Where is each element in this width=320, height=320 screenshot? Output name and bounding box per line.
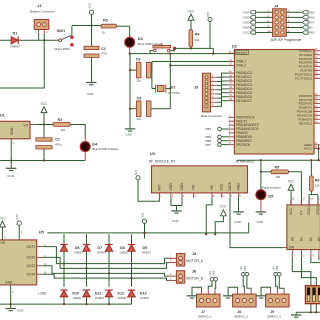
svg-text:SERVO_3: SERVO_3 — [267, 314, 281, 318]
svg-text:R6: R6 — [315, 178, 320, 182]
terminal GND J4 left — [256, 26, 273, 28]
svg-text:+5V: +5V — [210, 184, 214, 191]
terminal GND J4 left — [256, 11, 273, 13]
connector J8 SERVO_2 — [233, 294, 257, 307]
svg-text:AVR ISP Programmer: AVR ISP Programmer — [271, 38, 303, 42]
ground symbol left rail — [6, 167, 16, 169]
terminal PB3 — [218, 127, 222, 131]
decoder U4 — [287, 205, 320, 250]
svg-text:PD7/OC2: PD7/OC2 — [299, 121, 313, 125]
svg-text:51k: 51k — [315, 184, 320, 188]
terminal VCC for U4 — [288, 184, 294, 190]
wire C2 to ground — [91, 57, 93, 82]
DIP switch address — [305, 286, 320, 304]
terminal VCC above R4 — [188, 14, 194, 20]
wire DIP to ground rail — [310, 304, 312, 313]
terminal VCC above C1 — [41, 107, 47, 113]
svg-text:D6: D6 — [75, 246, 80, 250]
svg-text:OUT2: OUT2 — [26, 256, 35, 260]
resistor R5 — [261, 171, 271, 173]
svg-text:ANT: ANT — [157, 184, 161, 191]
svg-text:PB5: PB5 — [309, 10, 315, 14]
terminal PB5 — [218, 139, 222, 143]
wire column D7 — [86, 251, 88, 287]
svg-text:J5: J5 — [192, 251, 197, 256]
diode D6 — [63, 234, 65, 244]
svg-text:1N4007: 1N4007 — [10, 45, 20, 49]
svg-text:D3: D3 — [138, 36, 144, 41]
terminal PB0 J7 — [214, 277, 218, 281]
svg-text:Male Connector: Male Connector — [201, 114, 222, 118]
terminal NC J4 right — [286, 26, 302, 28]
svg-text:C4: C4 — [137, 96, 142, 100]
svg-text:GND: GND — [17, 309, 25, 313]
svg-text:L298: L298 — [38, 292, 46, 296]
svg-text:D8: D8 — [120, 246, 125, 250]
svg-text:OUT3: OUT3 — [26, 264, 35, 268]
wire U4 A1 to DIP — [302, 257, 317, 285]
VCC rail below U2 — [237, 159, 320, 161]
resistor R2 — [101, 24, 117, 28]
terminal RST J4 right — [286, 21, 302, 23]
svg-text:1N4007: 1N4007 — [72, 296, 82, 300]
wire column D8 — [108, 251, 110, 287]
svg-text:C1: C1 — [55, 137, 60, 141]
svg-text:J9: J9 — [270, 310, 274, 314]
svg-text:J4: J4 — [274, 4, 278, 8]
terminal PB3 J9 — [278, 272, 282, 276]
svg-text:GND: GND — [172, 219, 180, 223]
svg-text:CRYSTAL: CRYSTAL — [168, 91, 181, 95]
svg-text:RST: RST — [309, 21, 315, 25]
svg-text:VCC: VCC — [243, 31, 250, 35]
ground below D5 — [256, 211, 266, 213]
svg-text:OSC1: OSC1 — [307, 206, 311, 215]
svg-text:Signal indicator: Signal indicator — [262, 185, 281, 189]
svg-text:PC7/TOSC2: PC7/TOSC2 — [295, 76, 312, 80]
svg-text:+12V: +12V — [140, 212, 144, 219]
svg-text:MOTOR_A: MOTOR_A — [186, 259, 203, 263]
svg-text:PB0: PB0 — [212, 270, 216, 276]
diode D8 — [108, 234, 110, 244]
wire U1 ground pin — [10, 139, 12, 161]
wire crystal ground column — [129, 54, 131, 129]
svg-text:D9: D9 — [143, 246, 148, 250]
svg-text:D12: D12 — [117, 292, 124, 296]
ground U3 pin8 — [238, 197, 240, 212]
svg-text:D4: D4 — [92, 141, 98, 146]
svg-text:VCC: VCC — [288, 180, 295, 184]
wire OUT1 to MOTOR_A — [42, 247, 168, 264]
connector J7 SERVO_1 — [197, 294, 221, 307]
svg-text:VCC: VCC — [220, 205, 227, 209]
svg-text:PB2: PB2 — [309, 31, 315, 35]
ground below C2 — [86, 82, 96, 84]
svg-text:MOTOR_B: MOTOR_B — [186, 277, 203, 281]
terminal +12V top — [89, 10, 93, 14]
svg-text:PA7/ADC7: PA7/ADC7 — [236, 99, 252, 103]
capacitor C3 — [136, 62, 141, 78]
svg-text:D7: D7 — [98, 246, 103, 250]
svg-text:+12V: +12V — [15, 214, 19, 221]
svg-text:GND: GND — [5, 280, 13, 284]
svg-text:VT: VT — [299, 211, 303, 215]
ground J7 — [192, 287, 202, 296]
diode D10 — [60, 289, 67, 291]
wire +12V motor rail — [48, 232, 249, 234]
wire column D9 — [131, 251, 133, 287]
svg-text:GND: GND — [243, 15, 251, 19]
svg-text:GND: GND — [10, 127, 14, 135]
ground U3 pins 2-3 — [170, 197, 172, 205]
terminal PB7 — [218, 143, 222, 147]
wire U4 A2 right — [311, 257, 320, 262]
svg-text:+5V: +5V — [239, 266, 243, 271]
svg-text:RESET: RESET — [236, 51, 247, 55]
svg-text:C3: C3 — [136, 58, 141, 62]
svg-text:C2: C2 — [101, 47, 106, 51]
svg-text:J1: J1 — [37, 3, 42, 8]
wire to regulator input loop — [0, 34, 44, 89]
terminal +12V above U5 — [17, 221, 21, 225]
wire R2 to D3 — [117, 25, 130, 27]
svg-text:+5V: +5V — [208, 271, 212, 276]
svg-text:SERVO_1: SERVO_1 — [198, 314, 212, 318]
diode D13 — [128, 289, 135, 291]
terminal VCC above U5 — [0, 221, 5, 227]
resistor R4 — [189, 30, 193, 47]
svg-text:Battery Connector: Battery Connector — [30, 10, 55, 14]
svg-text:A2: A2 — [309, 237, 313, 241]
diode D9 — [131, 234, 133, 244]
svg-text:A0: A0 — [290, 237, 294, 241]
svg-text:GND: GND — [125, 132, 132, 136]
svg-text:J7: J7 — [201, 310, 205, 314]
svg-text:VCC: VCC — [188, 10, 195, 14]
connector J9 SERVO_3 — [266, 294, 290, 307]
svg-text:DIN: DIN — [289, 246, 295, 250]
terminal GND J4 left — [256, 21, 273, 23]
svg-text:GND: GND — [7, 174, 15, 178]
wire AREF AVCC to VCC rail — [318, 145, 320, 160]
svg-text:1k2: 1k2 — [61, 128, 66, 132]
svg-text:GND: GND — [243, 26, 251, 30]
diode D12 — [105, 289, 112, 291]
svg-text:J6: J6 — [192, 268, 197, 273]
wire U4 A3 stub — [318, 257, 320, 260]
svg-text:1N4007: 1N4007 — [140, 296, 150, 300]
svg-text:PB3: PB3 — [275, 265, 279, 271]
wire OUT3 to MOTOR_B — [42, 266, 168, 276]
junction — [43, 39, 45, 41]
svg-text:+12V: +12V — [87, 3, 91, 10]
ground below C3 C4 — [125, 128, 135, 130]
svg-text:GND: GND — [243, 21, 251, 25]
svg-text:PB7/SCK: PB7/SCK — [236, 143, 251, 147]
wire reset/ground run y53.6 — [130, 53, 235, 55]
svg-text:GND: GND — [243, 10, 251, 14]
wire column D6 — [63, 251, 65, 287]
terminal PB6 J4 right — [286, 16, 302, 18]
svg-text:OUT4: OUT4 — [26, 272, 35, 276]
svg-text:U5: U5 — [39, 230, 45, 235]
svg-text:Board PWR Indicator: Board PWR Indicator — [92, 147, 118, 151]
resistor R6 — [310, 160, 312, 176]
svg-text:1N4007: 1N4007 — [117, 296, 127, 300]
svg-text:22p: 22p — [136, 79, 141, 83]
connector J5 MOTOR_A — [176, 254, 184, 267]
svg-text:VCC: VCC — [220, 183, 224, 191]
junction — [90, 24, 92, 26]
svg-text:U1: U1 — [0, 114, 5, 118]
terminal +5V J8 — [241, 272, 245, 276]
terminal +5V J9 — [274, 272, 278, 276]
svg-text:PB7: PB7 — [205, 143, 211, 147]
LED D3 Motor PWR Indicator — [129, 35, 131, 38]
svg-text:VO: VO — [23, 123, 28, 127]
diode D1 — [11, 37, 18, 44]
svg-text:GND: GND — [234, 220, 242, 224]
svg-text:GND: GND — [237, 183, 241, 191]
terminal PB4 — [218, 135, 222, 139]
junction button to R4 net — [173, 47, 176, 50]
LED D4 Board PWR Indicator — [84, 137, 86, 142]
wire OUT2 to MOTOR_A — [42, 257, 168, 268]
svg-text:D5: D5 — [268, 193, 274, 198]
ground U5 — [10, 285, 12, 304]
terminal PB1 J8 — [245, 272, 249, 276]
capacitor C4 — [136, 101, 141, 117]
svg-text:GND: GND — [87, 92, 95, 96]
capacitor C1 — [43, 125, 45, 138]
svg-text:D13: D13 — [140, 292, 147, 296]
wire R3 to D4 — [70, 125, 85, 137]
svg-text:+5V: +5V — [192, 184, 196, 191]
wire U4 A0 to DIP — [292, 257, 311, 285]
svg-text:+5V: +5V — [272, 266, 276, 271]
svg-text:U3: U3 — [150, 151, 156, 156]
svg-text:R5: R5 — [275, 166, 280, 170]
svg-text:J3: J3 — [194, 85, 199, 90]
wire battery positive horizontal — [0, 39, 59, 41]
push button reset — [153, 45, 171, 48]
svg-text:A1: A1 — [300, 237, 304, 241]
terminal GND J4 left — [256, 16, 273, 18]
terminal PB5 J4 right — [286, 11, 302, 13]
svg-text:RST: RST — [206, 11, 210, 17]
wire OUT4 to MOTOR_B — [42, 274, 168, 280]
svg-text:D1: D1 — [13, 32, 18, 36]
wire J1 pin1 to D1 net — [38, 34, 40, 41]
terminal +12V mid — [142, 219, 146, 223]
svg-text:AVCC: AVCC — [304, 147, 313, 151]
ground J8 — [228, 287, 238, 296]
svg-text:XTAL2: XTAL2 — [236, 64, 246, 68]
svg-text:DATA: DATA — [228, 181, 232, 190]
terminal PB2 J4 right — [286, 32, 302, 34]
svg-text:1N4007: 1N4007 — [95, 296, 105, 300]
wire reset pullup row — [175, 47, 214, 49]
svg-text:PB1: PB1 — [243, 265, 247, 271]
svg-text:Motor PWR: Motor PWR — [55, 47, 70, 51]
svg-text:PB3: PB3 — [205, 127, 211, 131]
svg-text:OUT1: OUT1 — [26, 245, 35, 249]
svg-text:D10: D10 — [72, 292, 79, 296]
svg-text:VCC: VCC — [289, 207, 293, 215]
wire XTAL1 — [152, 61, 229, 63]
wire XTAL2 — [170, 64, 228, 66]
wire R5 to U4 VT — [289, 172, 302, 205]
svg-text:GND: GND — [256, 220, 264, 224]
crystal X1 — [151, 62, 153, 89]
svg-text:J8: J8 — [237, 310, 241, 314]
wire U3 +5V to rail — [206, 197, 212, 234]
svg-text:OSC2: OSC2 — [316, 206, 320, 215]
svg-text:10k: 10k — [195, 38, 200, 42]
svg-text:470u: 470u — [101, 52, 108, 56]
svg-text:1N4007: 1N4007 — [142, 250, 152, 254]
svg-text:U2: U2 — [232, 44, 238, 49]
svg-text:D11: D11 — [95, 292, 101, 296]
svg-text:SERVO_2: SERVO_2 — [234, 314, 248, 318]
diode D7 — [86, 234, 88, 244]
terminal +5V J7 — [210, 277, 214, 281]
svg-text:GND: GND — [180, 183, 184, 191]
svg-text:R3: R3 — [58, 118, 63, 122]
svg-text:GND: GND — [169, 183, 173, 191]
svg-text:X1: X1 — [171, 86, 176, 90]
svg-text:R2: R2 — [103, 17, 109, 22]
svg-text:ANT: ANT — [134, 170, 138, 176]
svg-text:470u: 470u — [55, 143, 62, 147]
ground rail left — [0, 160, 85, 162]
capacitor C2 — [91, 26, 93, 47]
wire U3 DATA to U4 DIN — [230, 197, 283, 247]
svg-text:22p: 22p — [137, 117, 142, 121]
junction D3 bottom — [129, 53, 131, 55]
wire VCC rail to D5 branch — [260, 160, 262, 190]
wire VO to VCC net — [35, 124, 53, 126]
svg-text:VCC: VCC — [41, 102, 48, 106]
connector J6 MOTOR_B — [176, 271, 184, 284]
terminal ANT — [138, 180, 159, 201]
wire diode bottom rail — [0, 303, 132, 305]
ground J9 — [261, 287, 271, 296]
wire SW1 to +12V rail — [71, 26, 73, 36]
terminal VCC J4 left — [256, 32, 273, 34]
svg-text:RF_MODULE_RX: RF_MODULE_RX — [149, 160, 177, 164]
resistor R3 — [53, 122, 70, 126]
svg-text:VCC: VCC — [0, 216, 6, 220]
svg-text:PB6: PB6 — [309, 15, 315, 19]
diode D11 — [83, 289, 90, 291]
svg-text:SW1: SW1 — [57, 28, 66, 33]
svg-text:100: 100 — [276, 175, 281, 179]
terminal RST — [208, 17, 212, 21]
